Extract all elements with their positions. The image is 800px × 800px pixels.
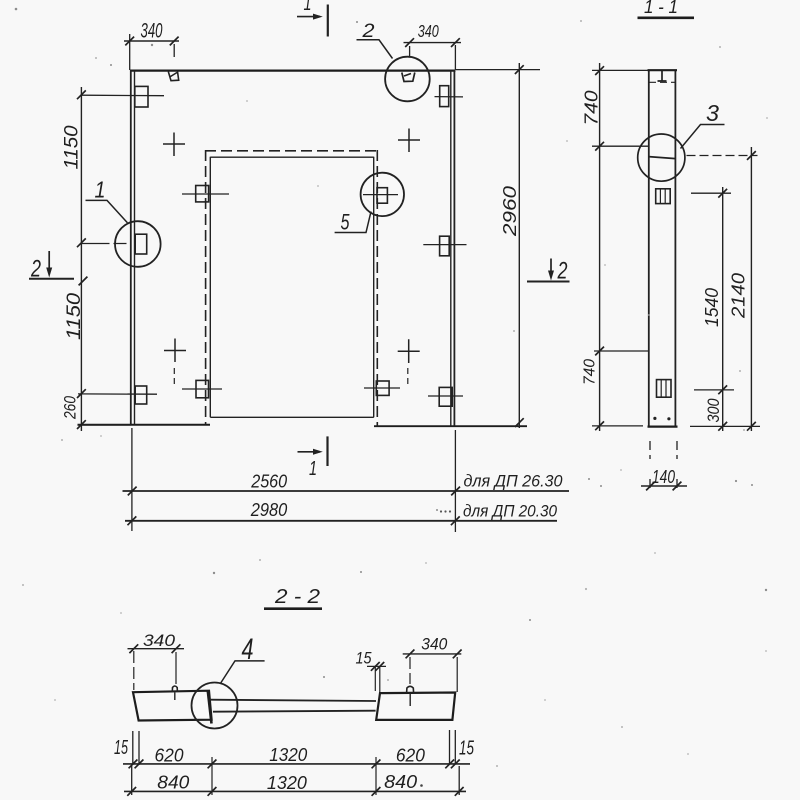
svg-text:для ДП 26.30: для ДП 26.30 (464, 473, 564, 491)
web bottom line (213, 711, 376, 712)
right block lifting loop (407, 686, 414, 693)
right loop rod (409, 694, 411, 707)
door opening dashed right jamb (376, 150, 378, 426)
joint end plate line (detail 4) (208, 691, 212, 724)
detail circle 4 (192, 683, 238, 729)
left jamb lower plate centreline (182, 388, 222, 390)
dimension line 1540 / 300 (691, 187, 734, 431)
detail circle 2 (385, 57, 430, 102)
detail 5 leader (335, 212, 371, 233)
detail 2 leader (357, 40, 393, 59)
embedded plate left edge middle (detail 1) (135, 234, 147, 254)
left block lifting loop (172, 686, 177, 692)
embedded plate right edge top (440, 86, 449, 107)
svg-text:740: 740 (582, 359, 599, 385)
strip lower embedded plate (657, 380, 672, 398)
detail 1 leader (86, 200, 128, 222)
panel left edge outer line (130, 70, 132, 425)
svg-text:1: 1 (309, 458, 317, 480)
strip upper embedded plate (656, 189, 671, 204)
svg-text:2980: 2980 (250, 500, 287, 520)
dimension 340 right (2-2) (403, 635, 462, 692)
embedded plate left jamb upper (196, 186, 209, 202)
svg-text:1: 1 (95, 177, 106, 203)
svg-text:740: 740 (582, 91, 602, 126)
embedded plate right jamb lower (376, 381, 389, 395)
left dimension line 740 upper and 740 lower (582, 63, 650, 431)
svg-text:2560: 2560 (250, 471, 287, 491)
strip bottom edge (648, 426, 678, 428)
svg-text:для ДП 20.30: для ДП 20.30 (463, 502, 558, 520)
svg-text:140: 140 (652, 467, 675, 487)
loop seen from side (T mark) (658, 71, 667, 81)
lower right cross dash tail (407, 368, 409, 384)
svg-text:2: 2 (557, 258, 568, 285)
svg-text:15: 15 (114, 737, 129, 759)
strip right edge (674, 70, 676, 427)
dimension 340 top right (404, 21, 462, 70)
detail 4 leader (221, 661, 265, 683)
dimension 140 bottom of strip (641, 441, 687, 490)
svg-text:300: 300 (704, 398, 723, 422)
dimension row 840/1320/840 (124, 757, 466, 796)
embedded plate left edge bottom (135, 386, 147, 404)
panel right edge inner line (450, 71, 452, 426)
svg-text:15: 15 (356, 649, 372, 668)
plate centreline / extension from left dim (82, 94, 165, 97)
detail 3 leader (681, 125, 725, 149)
joint plate line in circle 3 (649, 157, 676, 159)
svg-text:840: 840 (157, 772, 190, 793)
dimension row 620/1320/620 (123, 744, 470, 768)
svg-text:1150: 1150 (62, 125, 83, 169)
svg-text:5: 5 (341, 210, 351, 235)
svg-text:260: 260 (61, 396, 80, 420)
bottom dimension row 2560 (123, 428, 570, 532)
strip top edge (648, 69, 678, 71)
scan specks (15, 8, 768, 678)
right vertical dimension 2960 (456, 63, 540, 428)
bottom dimension row 2980 (125, 500, 558, 525)
strip left edge (648, 70, 650, 427)
svg-text:840: 840 (384, 771, 418, 792)
tick on left dimension line at detail level (79, 277, 88, 286)
svg-text:3: 3 (706, 100, 719, 126)
panel top edge (130, 69, 456, 71)
dimension 15 middle (2-2) (356, 649, 387, 693)
svg-text:2140: 2140 (729, 273, 749, 319)
embedded plate right jamb upper (detail 5) (377, 188, 387, 204)
svg-text:620: 620 (155, 745, 185, 766)
section mark 2 left (29, 251, 74, 283)
centre cross upper right (398, 129, 420, 153)
svg-text:340: 340 (421, 635, 447, 654)
svg-text:2: 2 (361, 21, 375, 42)
dimension 340 left (2-2) (128, 631, 185, 690)
centre cross upper left (163, 133, 185, 157)
right block outline (376, 693, 455, 720)
svg-text:15: 15 (459, 738, 475, 760)
web top line (210, 700, 377, 701)
dimension line 2140 (687, 147, 761, 431)
detail circle 5 (361, 173, 404, 216)
door opening dashed left jamb (205, 150, 207, 424)
dimension 15 bottom left (2-2) (114, 731, 139, 765)
svg-text:340: 340 (418, 21, 439, 41)
embedded plate left jamb lower (196, 380, 209, 397)
detail circle 1 (115, 221, 161, 267)
panel bottom edge right part with extension to 2960 dim (374, 425, 527, 427)
dashed anchoring line across strip (649, 81, 676, 83)
svg-text:1 - 1: 1 - 1 (644, 0, 678, 17)
svg-text:1320: 1320 (267, 772, 308, 793)
svg-text:340: 340 (143, 631, 176, 650)
right jamb lower plate centreline (364, 387, 400, 389)
door opening inner solid bottom (210, 416, 373, 418)
lifting loop right (detail 2) (402, 73, 415, 82)
section mark 1 bottom (298, 436, 328, 479)
svg-text:1320: 1320 (269, 744, 308, 765)
lifting loop left (168, 72, 178, 81)
left block outline (133, 691, 212, 721)
svg-text:1540: 1540 (702, 288, 722, 327)
embedded plate right edge bottom (439, 387, 452, 406)
section 2-2 title underline (264, 607, 322, 610)
svg-text:1150: 1150 (64, 293, 85, 340)
embedded plate right edge middle (440, 236, 450, 256)
right edge bottom plate centreline (428, 395, 463, 397)
centre cross lower left (164, 339, 186, 363)
door opening inner solid top (210, 156, 373, 158)
panel right edge outer line (453, 70, 455, 427)
svg-text:620: 620 (396, 745, 426, 766)
section mark 2 right (527, 258, 570, 285)
right edge top plate centreline (435, 96, 464, 98)
section mark 1 top (297, 0, 328, 37)
panel left edge inner line (134, 71, 136, 424)
detail 5 plate centreline (363, 194, 398, 196)
svg-text:2 - 2: 2 - 2 (274, 586, 320, 608)
left jamb upper plate centreline (182, 193, 229, 195)
detail circle 3 (638, 134, 685, 181)
panel bottom edge left part (78, 424, 211, 426)
door opening inner solid right (373, 157, 375, 418)
section 1-1 title underline (638, 16, 695, 19)
dimension 340 top left (124, 19, 179, 71)
embedded plate left edge top (135, 86, 148, 107)
left vertical dimension line 1150/1150/260 (61, 87, 132, 431)
svg-text:340: 340 (141, 19, 163, 43)
anchor dots at strip bottom (653, 417, 656, 420)
right edge middle plate centreline (423, 244, 466, 246)
lower left cross dash tail (173, 368, 175, 388)
door opening inner solid left (209, 157, 211, 418)
centre cross lower right (398, 339, 420, 363)
left loop rod (174, 693, 176, 701)
door opening dashed top (205, 150, 378, 152)
plate centreline / extension at 394 (78, 393, 157, 395)
detail 1 extension line (82, 243, 127, 245)
svg-text:1: 1 (304, 0, 312, 15)
svg-text:2960: 2960 (500, 186, 520, 237)
dimension 15 bottom right (2-2) (450, 730, 475, 765)
